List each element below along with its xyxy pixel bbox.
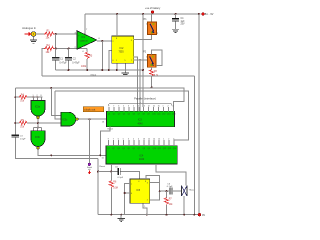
- wire R1 to op-amp + input: [55, 33, 78, 35]
- resistor R2: [44, 44, 54, 54]
- resistor R7: [165, 190, 174, 215]
- junction right rail / C6 row: [159, 190, 161, 192]
- wire node A down to node B: [55, 34, 57, 49]
- svg-text:3: 3: [128, 105, 129, 107]
- IC2 Vcc stub from rail: [116, 13, 118, 36]
- wire H3 bus: [15, 88, 183, 111]
- resistor R5: [14, 120, 39, 128]
- top power rail: [85, 13, 201, 15]
- svg-text:1: 1: [33, 95, 34, 97]
- svg-text:4040: 4040: [139, 159, 145, 161]
- wire H2 feedback: [42, 75, 195, 77]
- svg-text:IC1: IC1: [82, 36, 86, 39]
- wire P2 net branch down to IC3: [139, 59, 141, 111]
- node D junction on output: [101, 40, 103, 42]
- svg-text:Q12: Q12: [163, 148, 166, 150]
- svg-text:+ve of battery: +ve of battery: [145, 7, 161, 10]
- op-amp IC1: [75, 29, 101, 53]
- svg-text:25V: 25V: [181, 23, 186, 25]
- junction V1 bottom: [193, 214, 195, 216]
- resistor R3: [81, 49, 93, 71]
- junction C5 row / R6 rail: [110, 171, 112, 173]
- svg-text:4: 4: [138, 138, 139, 140]
- wire IC2 aux pin down to IC3: [134, 57, 138, 111]
- capacitor C2: [65, 49, 80, 71]
- svg-text:IC5: IC5: [136, 189, 140, 192]
- junction H1/R3: [86, 69, 88, 71]
- resistor R8 under P2: [150, 67, 159, 88]
- wire U2b output to IC4 pin11: [38, 149, 106, 155]
- svg-text:Q5: Q5: [127, 148, 129, 150]
- gate U3 NAND right: [61, 112, 78, 126]
- svg-text:Q7: Q7: [138, 148, 140, 150]
- terminal B1 9V: [198, 13, 214, 17]
- ground below J1: [30, 37, 37, 44]
- wire C6 row to buzzer: [160, 190, 182, 192]
- capacitor C1: [52, 49, 67, 71]
- wire output node down to H1: [101, 41, 103, 70]
- svg-text:Q6: Q6: [132, 148, 134, 150]
- svg-text:7: 7: [113, 138, 114, 140]
- terminal +ve of battery: [145, 7, 161, 13]
- IC4 counter: [106, 146, 177, 164]
- orange net label clock out: [83, 107, 104, 112]
- svg-text:0.1µF: 0.1µF: [167, 186, 173, 188]
- svg-text:B1 .. 9V: B1 .. 9V: [205, 13, 214, 16]
- capacitor C4 electrolytic: [172, 13, 185, 29]
- junction riser branch: [97, 171, 99, 173]
- IC5 left pin loop: [124, 183, 130, 214]
- wire J1 to R1: [36, 33, 44, 35]
- svg-text:4040: 4040: [138, 123, 144, 125]
- svg-text:Q9: Q9: [148, 148, 150, 150]
- IC3 top pins: [109, 107, 173, 111]
- svg-text:6: 6: [118, 105, 119, 107]
- wire U2a output down: [37, 119, 39, 128]
- svg-text:3: 3: [128, 138, 129, 140]
- capacitor C5: [115, 166, 124, 179]
- svg-text:Q8: Q8: [143, 148, 145, 150]
- svg-text:15: 15: [158, 138, 160, 140]
- wire H4 bus: [55, 91, 188, 146]
- svg-text:12: 12: [148, 105, 150, 107]
- P2 wiper loop: [152, 50, 162, 66]
- svg-text:Q14: Q14: [172, 114, 175, 116]
- IC2 bottom pin to H1: [116, 63, 118, 71]
- IC2 ground pin: [122, 63, 129, 76]
- wire H1 bus C1/C2/R3 bottoms: [56, 69, 143, 71]
- svg-text:Q8: Q8: [142, 114, 144, 116]
- wire IC2 pin3 to P1: [134, 34, 152, 39]
- svg-text:Q10: Q10: [152, 114, 155, 116]
- svg-text:2: 2: [133, 138, 134, 140]
- wire H3 branch down to gate U3 input1: [51, 88, 61, 116]
- gate U2b input bar and stubs: [34, 127, 42, 131]
- wire - input to R3 top jog: [77, 48, 87, 50]
- svg-text:100k: 100k: [81, 65, 87, 68]
- svg-text:1.5µF: 1.5µF: [20, 139, 26, 141]
- node A junction: [55, 33, 57, 35]
- IC3 pin numbers: [108, 105, 173, 107]
- input arrow: [25, 32, 32, 36]
- wire R2 to op-amp - input: [55, 48, 78, 50]
- bottom rail: [98, 214, 199, 216]
- buzzer BZ1: [182, 186, 196, 197]
- svg-text:Q1: Q1: [108, 114, 110, 116]
- svg-text:Q6: Q6: [133, 114, 135, 116]
- svg-text:clock out: clock out: [84, 108, 95, 112]
- capacitor C6: [167, 183, 173, 194]
- svg-text:0V: 0V: [202, 214, 205, 217]
- svg-text:1: 1: [163, 105, 164, 107]
- svg-text:CA3140: CA3140: [80, 39, 89, 42]
- trimmer P1: [144, 14, 159, 35]
- svg-text:-: -: [78, 46, 79, 49]
- svg-text:Parallel (interface): Parallel (interface): [134, 97, 156, 101]
- svg-text:8: 8: [41, 95, 42, 97]
- svg-text:2: 2: [133, 105, 134, 107]
- node B junction: [55, 48, 57, 50]
- svg-text:1: 1: [163, 138, 164, 140]
- junction R7 bottom: [166, 214, 168, 216]
- svg-text:14: 14: [153, 138, 155, 140]
- svg-text:Q13: Q13: [167, 114, 170, 116]
- wire U3 output to IC3: [78, 118, 106, 120]
- IC5 bottom pin stub: [143, 203, 148, 215]
- resistor R1: [44, 30, 54, 40]
- brace over IC3 pins: [109, 102, 172, 106]
- svg-text:Q11: Q11: [158, 148, 161, 150]
- junction U3 output tap: [89, 118, 91, 120]
- svg-text:Q4: Q4: [122, 148, 124, 150]
- svg-text:Q4: Q4: [123, 114, 125, 116]
- svg-text:0.47µF: 0.47µF: [72, 63, 80, 65]
- rail stub down to IC3 pin8: [142, 13, 144, 107]
- svg-text:4: 4: [138, 105, 139, 107]
- gate U2b NAND down: [31, 131, 45, 149]
- resistor R6: [109, 172, 118, 215]
- svg-text:14: 14: [153, 105, 155, 107]
- IC4 pin names row: [107, 148, 176, 150]
- svg-text:2: 2: [168, 138, 169, 140]
- IC2 pin2 stub to H1: [108, 51, 112, 71]
- svg-text:IC3a: IC3a: [35, 107, 41, 109]
- svg-text:2: 2: [37, 95, 38, 97]
- svg-text:13: 13: [143, 138, 145, 140]
- wire C5 row: [97, 159, 99, 215]
- svg-text:Q2: Q2: [113, 114, 115, 116]
- svg-text:Reset: Reset: [100, 165, 106, 168]
- svg-text:Q12: Q12: [162, 114, 165, 116]
- junction R6 rail bottom: [110, 214, 112, 216]
- svg-text:Q10: Q10: [153, 148, 156, 150]
- svg-text:5: 5: [123, 138, 124, 140]
- svg-text:Q5: Q5: [128, 114, 130, 116]
- gate U2a input stubs: [33, 95, 42, 100]
- wire tap down to Digital out: [89, 119, 91, 163]
- svg-text:IC4: IC4: [140, 154, 144, 157]
- svg-text:10M: 10M: [113, 188, 118, 190]
- left rail: [15, 88, 98, 159]
- IC3 reset stub: [99, 127, 113, 157]
- junction H1/node D: [101, 69, 103, 71]
- junction H1/C2: [68, 69, 70, 71]
- trimmer P2: [143, 51, 156, 68]
- op-amp IC1 power stub from rail: [84, 14, 86, 34]
- svg-text:3: 3: [172, 105, 173, 107]
- IC4 top pins: [109, 140, 175, 146]
- svg-text:Q13: Q13: [168, 148, 171, 150]
- wire op-amp output to IC2: [97, 40, 112, 42]
- svg-text:IC2: IC2: [120, 47, 125, 50]
- svg-text:7555: 7555: [119, 51, 125, 53]
- IC2 timer: [112, 36, 134, 63]
- svg-text:Analogue In: Analogue In: [22, 26, 36, 30]
- IC4 bottom pin to R6 rail: [110, 164, 112, 171]
- IC5 pin8 stub over to right rail: [146, 175, 160, 200]
- wire IC2 pin7 to P2: [134, 59, 148, 61]
- junction buzzer bottom: [183, 214, 185, 216]
- svg-text:Q11: Q11: [157, 114, 160, 116]
- svg-text:Q9: Q9: [147, 114, 149, 116]
- connector Digital out: [87, 163, 93, 174]
- IC3 parallel port latch: [107, 111, 175, 126]
- svg-text:IC3b: IC3b: [35, 137, 41, 139]
- svg-text:15: 15: [158, 105, 160, 107]
- wire riser to C5 to IC5: [98, 172, 140, 180]
- right vertical V2 from rail: [198, 14, 200, 215]
- svg-text:Q2: Q2: [112, 148, 114, 150]
- IC4 output pin to buzzer: [156, 164, 186, 186]
- ground below C4: [172, 29, 179, 32]
- svg-text:Q3: Q3: [118, 114, 120, 116]
- connector J1 circle: [31, 32, 36, 37]
- svg-text:2: 2: [168, 105, 169, 107]
- IC5 555 timer: [130, 179, 150, 208]
- svg-text:IC3: IC3: [138, 119, 142, 122]
- svg-text:0.47µF: 0.47µF: [60, 63, 68, 65]
- svg-text:3: 3: [173, 138, 174, 140]
- ground at bottom rail: [118, 214, 125, 222]
- IC3 pin names row: [108, 114, 176, 116]
- capacitor C3: [12, 135, 26, 141]
- svg-text:Q14: Q14: [173, 148, 176, 150]
- svg-text:9: 9: [108, 105, 109, 107]
- gate U2a NAND down: [31, 100, 45, 118]
- IC4 pin numbers: [108, 138, 175, 140]
- wire R2 left down to feedback H2: [42, 49, 44, 77]
- svg-text:12: 12: [148, 138, 150, 140]
- junction U2b out / H3 branch: [50, 154, 52, 156]
- svg-text:9: 9: [108, 138, 109, 140]
- junction H3 branch: [50, 87, 52, 89]
- wire H4 branch down to gate U3 input2: [55, 91, 61, 119]
- resistor R4: [14, 94, 42, 102]
- svg-text:Q7: Q7: [138, 114, 140, 116]
- svg-text:0.1µF: 0.1µF: [118, 177, 124, 179]
- svg-text:5: 5: [123, 105, 124, 107]
- svg-text:6: 6: [118, 138, 119, 140]
- wire R5 node to gate U3 input3: [38, 122, 61, 124]
- buzzer bottom stub: [183, 196, 185, 215]
- right vertical V1 from H2: [193, 76, 195, 215]
- terminal 0V: [198, 213, 205, 217]
- svg-text:Q1: Q1: [107, 148, 109, 150]
- node C junction: [68, 48, 70, 50]
- svg-text:7: 7: [113, 105, 114, 107]
- svg-text:Q3: Q3: [117, 148, 119, 150]
